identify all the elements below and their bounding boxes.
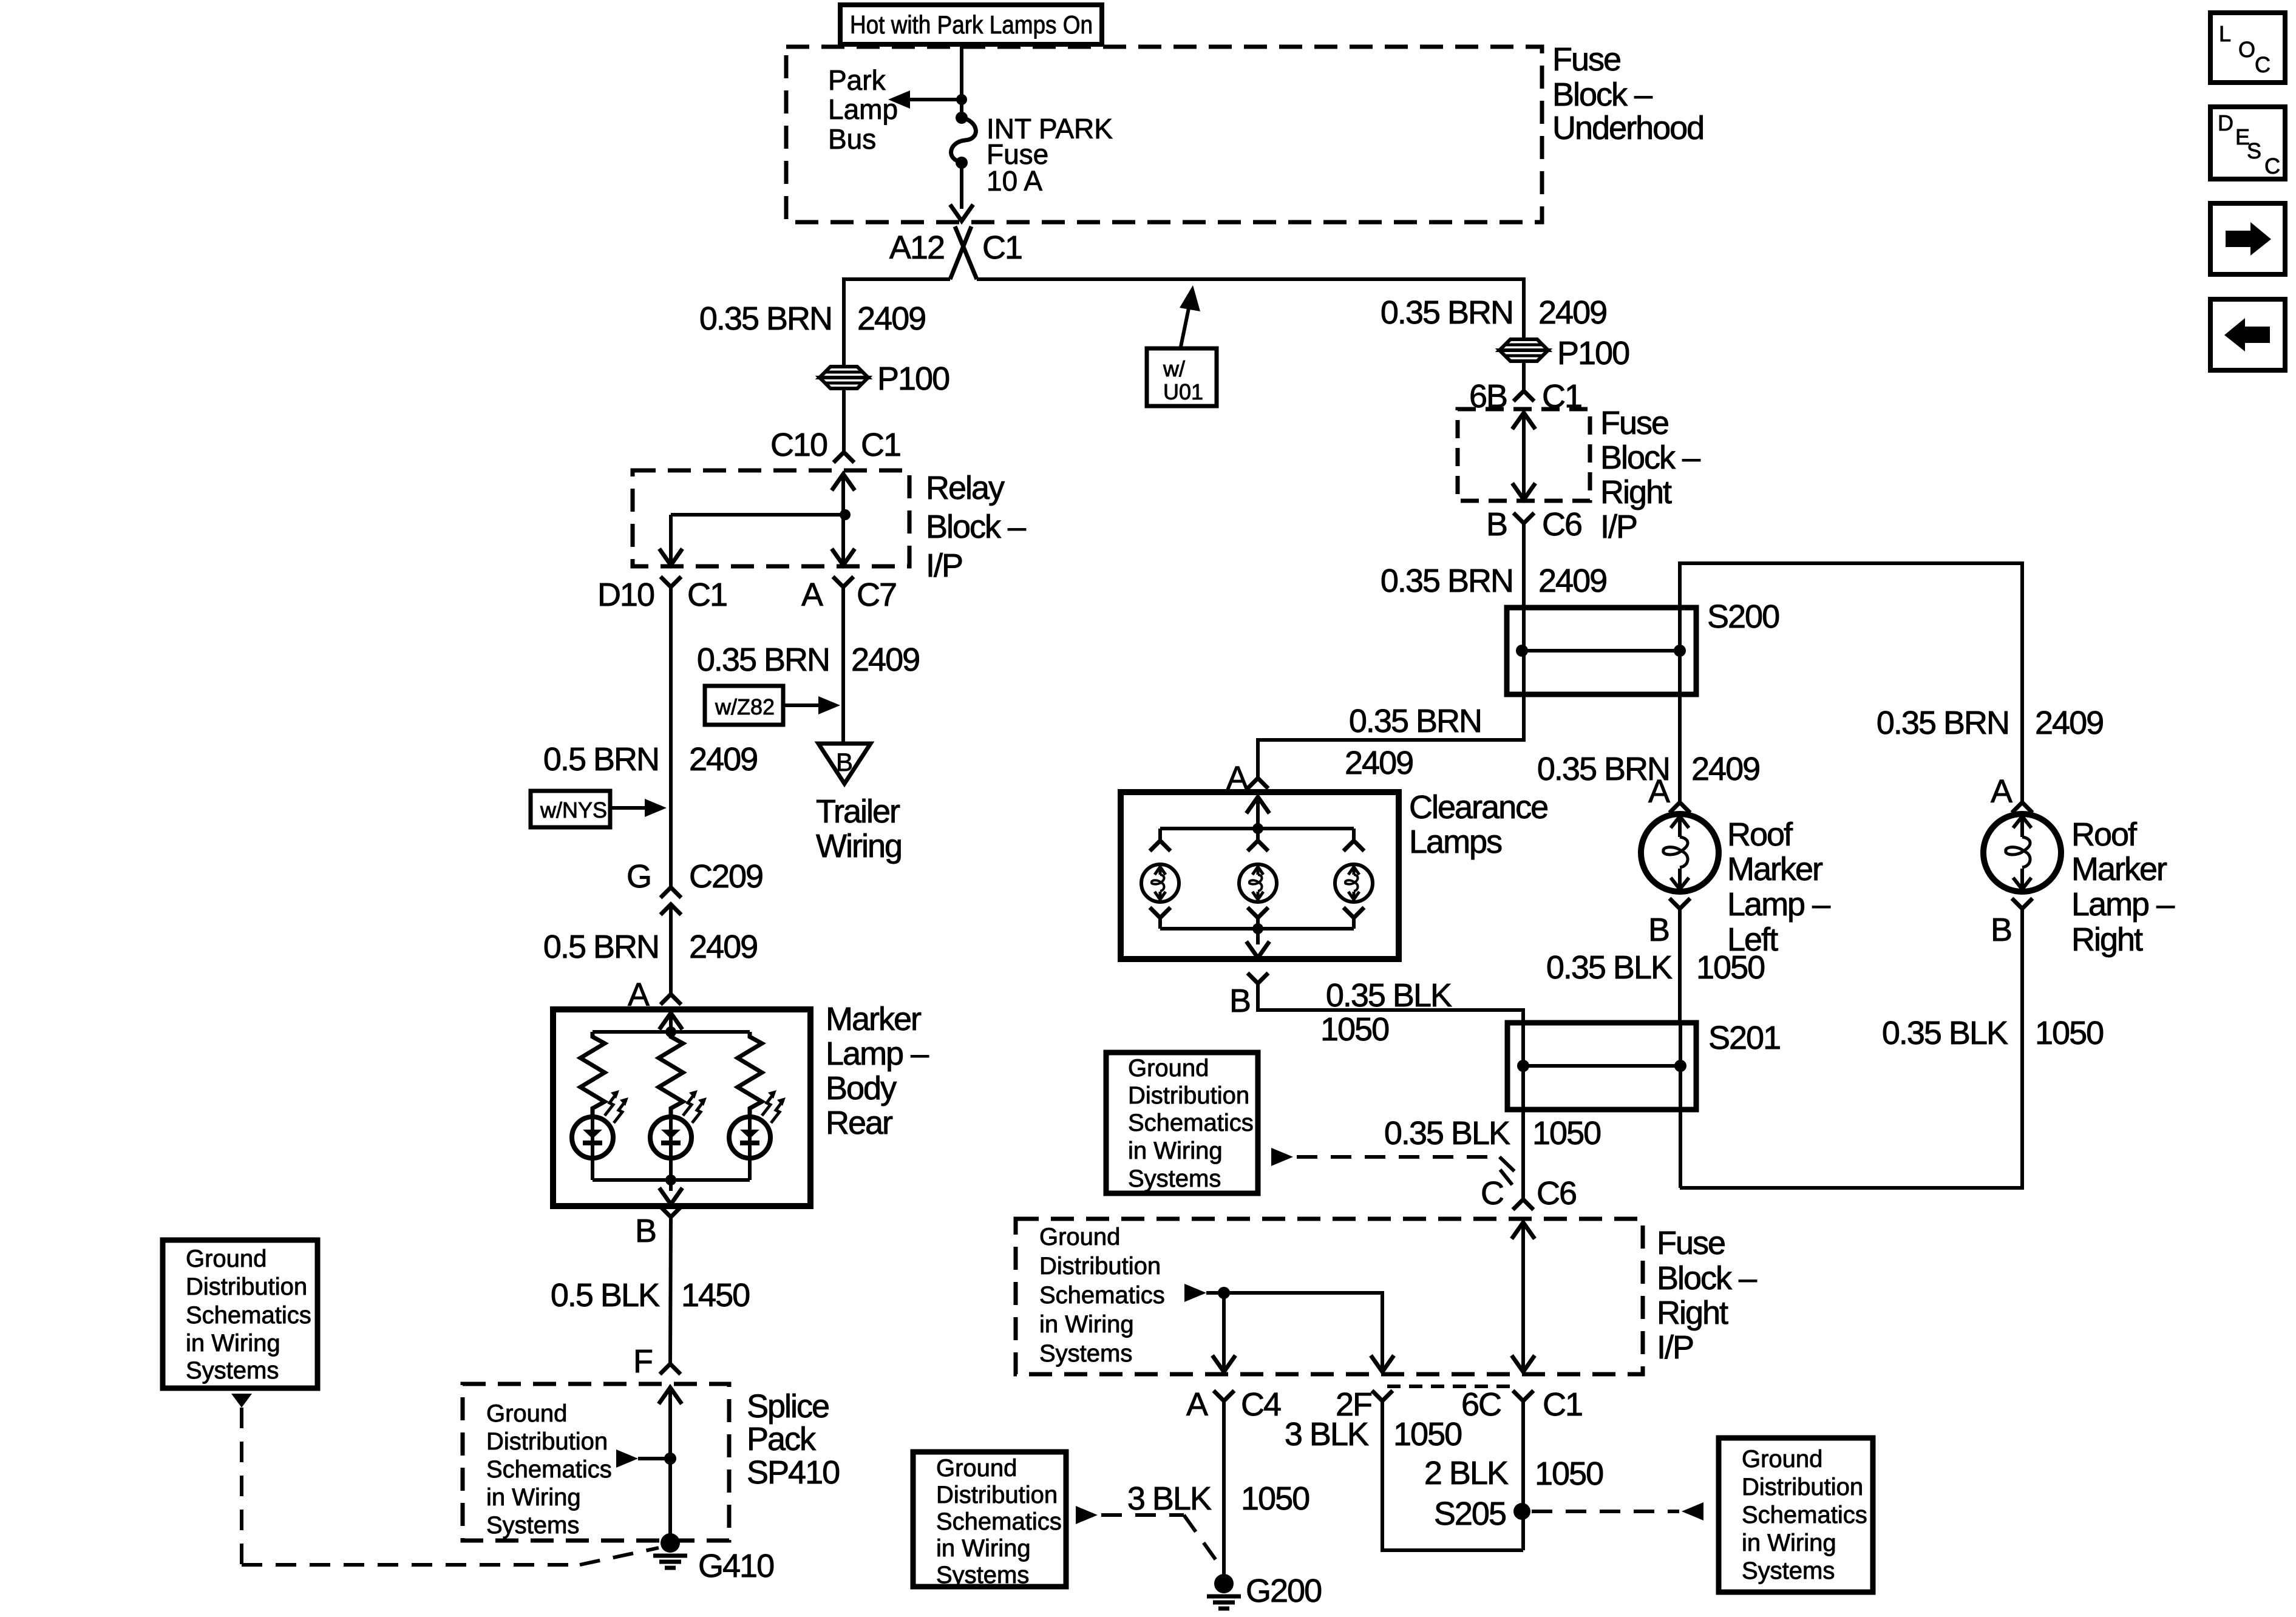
label Marker Lamp - Body Rear	[826, 1001, 929, 1141]
svg-text:Distribution: Distribution	[936, 1482, 1058, 1508]
splice pack entry arrow	[659, 1388, 682, 1404]
svg-text:1050: 1050	[1393, 1416, 1461, 1453]
icon box arrow left	[2210, 299, 2285, 370]
svg-text:2409: 2409	[689, 929, 757, 965]
svg-text:Ground: Ground	[1039, 1224, 1120, 1250]
ground G200	[1214, 1574, 1234, 1593]
marker exit arrow	[659, 1188, 682, 1204]
w/U01 arrow to wire	[1180, 285, 1200, 350]
label 3 BLK 1050 left	[1127, 1480, 1309, 1517]
svg-text:SP410: SP410	[747, 1454, 839, 1491]
svg-text:S200: S200	[1707, 598, 1779, 635]
dashed ref line from S205	[1532, 1510, 1679, 1513]
svg-text:Systems: Systems	[1128, 1165, 1221, 1192]
svg-text:0.35 BRN: 0.35 BRN	[1349, 703, 1481, 739]
GDS box arrow down	[231, 1394, 252, 1408]
wire split horizontal left	[844, 279, 950, 366]
svg-text:w/NYS: w/NYS	[540, 798, 607, 822]
connector A marker chevron	[661, 994, 681, 1005]
svg-text:Roof: Roof	[1727, 816, 1793, 853]
svg-text:2409: 2409	[1538, 294, 1606, 331]
svg-text:1050: 1050	[2035, 1015, 2103, 1051]
w/U01 reference box	[1147, 348, 1217, 406]
clearance entry arrow	[1246, 797, 1269, 813]
svg-text:C1: C1	[687, 577, 727, 613]
svg-text:0.35 BRN: 0.35 BRN	[699, 300, 832, 337]
wire P100 to fuse block right	[1522, 361, 1526, 391]
svg-text:1050: 1050	[1241, 1480, 1309, 1517]
label Fuse Block - Right I/P upper	[1600, 405, 1700, 545]
ground G410	[661, 1533, 680, 1553]
svg-text:Roof: Roof	[2071, 816, 2138, 853]
wire through fuse block right	[1522, 413, 1526, 501]
clearance exit arrow	[1246, 941, 1269, 958]
fuse block exit arrow 2F	[1371, 1355, 1394, 1372]
svg-text:P100: P100	[1557, 335, 1629, 371]
connector F chevron	[660, 1364, 681, 1374]
icon box DESC	[2210, 107, 2285, 179]
connector C10/C1 chevron	[834, 452, 854, 463]
lamp marker branch x1235	[729, 1090, 786, 1158]
svg-text:B: B	[1991, 912, 2011, 948]
svg-text:in Wiring: in Wiring	[486, 1484, 581, 1511]
connector B clearance chevron	[1248, 973, 1268, 983]
ground distribution schematics box middle	[1106, 1053, 1258, 1193]
svg-text:B: B	[1648, 912, 1669, 948]
svg-text:2409: 2409	[1538, 563, 1606, 599]
fuse block 6C exit arrow	[1512, 1355, 1535, 1372]
svg-text:3 BLK: 3 BLK	[1127, 1480, 1212, 1517]
splice S201 box	[1507, 1023, 1696, 1110]
label 0.5 BRN 2409 lower	[543, 929, 757, 965]
svg-text:S201: S201	[1708, 1020, 1780, 1056]
label Roof Marker Lamp - Right	[2071, 816, 2175, 958]
grommet P100 right	[1500, 339, 1548, 350]
connector A roof left chevron	[1669, 802, 1690, 813]
wire S200 to roof marker left	[1678, 651, 1682, 802]
svg-text:B: B	[836, 748, 853, 776]
svg-text:C10: C10	[770, 427, 827, 463]
roof marker lamp right bulb	[1983, 814, 2061, 892]
wire C209 to marker lamp	[669, 904, 673, 994]
svg-text:Right: Right	[1657, 1295, 1728, 1331]
svg-text:Marker: Marker	[1727, 851, 1823, 887]
icon box LOC	[2210, 13, 2285, 83]
wire 6C internal	[1521, 1222, 1525, 1373]
node marker bottom junction	[665, 1175, 676, 1185]
svg-text:Schematics: Schematics	[1128, 1110, 1254, 1136]
S205 ref arrow	[1682, 1502, 1703, 1520]
sub dashed line between 2F and 6C	[1387, 1385, 1518, 1388]
svg-text:Right: Right	[1600, 474, 1672, 510]
svg-text:I/P: I/P	[926, 547, 962, 584]
svg-text:C7: C7	[857, 577, 896, 613]
svg-text:Block –: Block –	[1657, 1260, 1757, 1297]
svg-text:U01: U01	[1163, 379, 1203, 404]
relay exit arrow left	[659, 549, 682, 565]
svg-text:A: A	[1186, 1386, 1208, 1423]
node marker top junction	[665, 1026, 676, 1037]
svg-text:S: S	[2247, 138, 2261, 163]
ground distribution schematics box left of G200	[913, 1452, 1066, 1588]
fuse block ref arrow	[1184, 1284, 1206, 1302]
node park lamp bus tap	[956, 94, 967, 105]
mid GDS arrow	[1271, 1148, 1293, 1166]
wire fuse to connector A12	[960, 163, 963, 209]
svg-text:1450: 1450	[681, 1277, 749, 1314]
svg-text:Body: Body	[826, 1070, 897, 1107]
svg-text:0.35 BLK: 0.35 BLK	[1326, 977, 1452, 1014]
connector 6B/C1 chevron	[1513, 391, 1534, 401]
svg-text:in Wiring: in Wiring	[936, 1535, 1031, 1562]
ground distribution schematics box top-left	[163, 1240, 318, 1388]
park lamp bus arrow	[888, 90, 962, 109]
fuse block right exit arrow	[1512, 483, 1535, 500]
connector B marker chevron	[661, 1207, 681, 1217]
splice pack SP410 dashed box	[463, 1384, 729, 1541]
wire split horizontal right	[977, 279, 1524, 339]
GDS reference text in splice pack	[486, 1400, 612, 1539]
connector A clearance chevron	[1248, 778, 1268, 788]
svg-text:B: B	[635, 1213, 656, 1249]
wire marker to splice pack	[670, 1217, 671, 1364]
label 0.35 BRN 2409 right branch	[1381, 294, 1606, 331]
w/Z82 reference box	[705, 686, 783, 725]
dashed ref route to G200	[1101, 1515, 1220, 1566]
svg-text:C1: C1	[1543, 1386, 1582, 1423]
wire A/C7 to trailer triangle	[841, 587, 845, 744]
svg-text:Fuse: Fuse	[1552, 41, 1620, 78]
svg-text:A: A	[801, 577, 823, 613]
svg-text:D: D	[2218, 110, 2233, 135]
wire header to park lamp bus tap	[960, 44, 963, 119]
dashed ref line to C6 wire	[1297, 1157, 1516, 1173]
fuse INT PARK 10A	[951, 112, 976, 169]
C diagonal tick	[1500, 1170, 1512, 1185]
lamp marker branch x1105	[650, 1090, 707, 1158]
left-mid GDS arrow	[1076, 1506, 1098, 1524]
w/NYS reference box	[531, 791, 610, 827]
wire marker bottom exit	[669, 1180, 673, 1191]
svg-text:0.35 BRN: 0.35 BRN	[1381, 563, 1513, 599]
label Fuse Block - Right I/P bottom	[1657, 1225, 1757, 1366]
svg-text:D10: D10	[597, 577, 654, 613]
svg-text:2409: 2409	[689, 741, 757, 778]
wire clearance feed internal	[1256, 798, 1260, 829]
w/NYS arrow	[610, 799, 667, 817]
wire marker bottom rail	[593, 1178, 750, 1182]
svg-text:Schematics: Schematics	[936, 1508, 1062, 1535]
connector 2F chevron	[1372, 1391, 1393, 1401]
svg-text:Relay: Relay	[926, 470, 1005, 506]
svg-text:in Wiring: in Wiring	[186, 1330, 280, 1357]
header box Hot with Park Lamps On	[840, 5, 1102, 44]
svg-text:Lamp –: Lamp –	[1727, 886, 1830, 923]
svg-text:2 BLK: 2 BLK	[1424, 1455, 1509, 1491]
svg-text:0.35 BRN: 0.35 BRN	[1381, 294, 1513, 331]
label 0.5 BRN 2409 upper	[543, 741, 757, 778]
svg-text:C6: C6	[1537, 1175, 1576, 1212]
svg-text:Bus: Bus	[828, 123, 876, 155]
label 0.35 BRN 2409 right lamp	[1877, 705, 2103, 741]
wire fuse block internal left drop	[1222, 1293, 1226, 1373]
svg-text:Splice: Splice	[747, 1388, 829, 1425]
svg-text:Ground: Ground	[186, 1246, 267, 1272]
fuse block right I/P bottom dashed box	[1016, 1219, 1643, 1374]
wire P100 to relay block	[842, 388, 846, 452]
svg-text:Ground: Ground	[1742, 1446, 1822, 1473]
node relay junction	[840, 509, 851, 520]
svg-text:Distribution: Distribution	[486, 1428, 608, 1455]
svg-text:C4: C4	[1241, 1386, 1281, 1423]
svg-text:6C: 6C	[1461, 1386, 1501, 1423]
fuse block right I/P upper dashed box	[1458, 409, 1590, 501]
w/Z82 arrow	[783, 696, 840, 714]
wire lamp to bottom rail x976	[591, 1158, 594, 1180]
dashed route to G410	[242, 1408, 659, 1565]
svg-text:0.35 BRN: 0.35 BRN	[1877, 705, 2009, 741]
svg-text:F: F	[633, 1343, 652, 1380]
svg-text:Marker: Marker	[826, 1001, 922, 1037]
wire D10 to C209	[669, 587, 673, 887]
marker lamp entry arrow	[659, 1013, 682, 1029]
wire S201 right to bottom rail	[1679, 1066, 1682, 1188]
label Splice Pack SP410	[747, 1388, 839, 1491]
wire S201 to fuse block C6	[1521, 1066, 1525, 1199]
wire roof left B to S201	[1678, 909, 1682, 1023]
clearance branch bottom pin x2072	[1248, 907, 1268, 929]
svg-text:Lamp –: Lamp –	[826, 1036, 929, 1072]
svg-text:Lamp –: Lamp –	[2071, 886, 2175, 923]
clearance bulb x1911	[1141, 864, 1179, 902]
label Roof Marker Lamp - Left	[1727, 816, 1830, 958]
svg-text:Rear: Rear	[826, 1105, 893, 1141]
trailer wiring triangle connector B	[818, 744, 871, 784]
label 0.35 BLK 1050 roof left	[1546, 949, 1764, 986]
node clearance bottom junction	[1252, 923, 1263, 934]
label 3 BLK 1050 2F	[1285, 1416, 1461, 1453]
splice pack ref arrow	[616, 1449, 670, 1468]
svg-text:B: B	[1486, 506, 1507, 543]
svg-text:10 A: 10 A	[987, 165, 1042, 197]
svg-text:Ground: Ground	[486, 1400, 567, 1427]
svg-text:P100: P100	[877, 361, 949, 397]
label Clearance Lamps	[1409, 789, 1547, 860]
svg-text:Distribution: Distribution	[186, 1273, 307, 1300]
wire B/C6 to S200	[1522, 523, 1526, 740]
svg-text:C1: C1	[861, 427, 900, 463]
svg-text:2409: 2409	[857, 300, 925, 337]
svg-text:in Wiring: in Wiring	[1128, 1137, 1223, 1164]
svg-text:Park: Park	[828, 64, 886, 96]
wire S200 to clearance lamps	[1258, 694, 1524, 778]
svg-text:C: C	[1481, 1175, 1503, 1212]
svg-text:A: A	[1991, 773, 2012, 810]
label 0.5 BLK 1450	[551, 1277, 749, 1314]
node S205	[1513, 1503, 1530, 1520]
svg-text:A12: A12	[889, 229, 944, 266]
wire marker top feed	[669, 1015, 673, 1032]
wire relay internal left drop	[669, 515, 673, 564]
connector B/C6 chevron	[1513, 513, 1534, 523]
svg-text:G200: G200	[1246, 1573, 1321, 1609]
svg-text:0.5 BRN: 0.5 BRN	[543, 929, 659, 965]
svg-text:in Wiring: in Wiring	[1742, 1530, 1836, 1556]
wire S201 right passthrough	[1679, 1023, 1682, 1066]
svg-text:L: L	[2219, 21, 2231, 46]
connector A12/C1 inline X symbol	[950, 226, 977, 279]
svg-text:Block –: Block –	[1552, 76, 1652, 113]
svg-text:Schematics: Schematics	[486, 1456, 612, 1483]
ground distribution schematics box right	[1719, 1438, 1873, 1592]
wire S201 left passthrough	[1521, 1023, 1525, 1066]
resistor marker branch x1235	[738, 1032, 762, 1117]
wire clearance top rail	[1160, 827, 1354, 830]
roof marker lamp left bulb	[1641, 814, 1719, 892]
svg-text:2409: 2409	[2035, 705, 2103, 741]
svg-text:3 BLK: 3 BLK	[1285, 1416, 1369, 1453]
svg-text:0.35 BLK: 0.35 BLK	[1546, 949, 1673, 986]
svg-text:Lamps: Lamps	[1409, 824, 1502, 860]
grommet P100 left	[820, 367, 868, 378]
svg-text:Fuse: Fuse	[1600, 405, 1668, 441]
node splice pack junction	[664, 1453, 676, 1465]
svg-text:Systems: Systems	[936, 1562, 1029, 1588]
svg-text:2409: 2409	[1691, 751, 1759, 787]
label 0.35 BLK 1050 to C6	[1384, 1115, 1600, 1151]
wire roof right B down	[1680, 909, 2022, 1188]
relay exit arrow right	[832, 549, 855, 565]
svg-text:G410: G410	[698, 1548, 773, 1584]
connector B roof left chevron	[1669, 898, 1690, 909]
svg-text:Ground: Ground	[1128, 1055, 1209, 1082]
label Relay Block - I/P	[926, 470, 1026, 584]
svg-text:0.35 BLK: 0.35 BLK	[1384, 1115, 1510, 1151]
fuse block exit arrow A	[1212, 1355, 1235, 1372]
clearance bulb x2072	[1239, 864, 1277, 902]
svg-text:0.5 BRN: 0.5 BRN	[543, 741, 659, 778]
svg-text:Lamp: Lamp	[828, 93, 898, 125]
svg-text:C1: C1	[982, 229, 1022, 266]
marker lamp body rear box	[553, 1009, 810, 1206]
svg-text:1050: 1050	[1320, 1011, 1388, 1048]
fuse block underhood dashed box	[786, 47, 1542, 222]
fuse block bottom entry arrow	[1512, 1222, 1535, 1239]
svg-text:B: B	[1229, 983, 1250, 1019]
svg-text:0.35 BRN: 0.35 BRN	[697, 642, 829, 678]
wire lamp to bottom rail x1235	[748, 1158, 752, 1180]
connector B roof right chevron	[2012, 898, 2033, 909]
arrow down at fuse block edge	[950, 205, 973, 221]
wire relay internal vertical	[841, 474, 845, 564]
svg-text:Clearance: Clearance	[1409, 789, 1547, 825]
connector D10/C1 chevron	[661, 577, 681, 587]
svg-text:w/: w/	[1163, 356, 1185, 381]
label INT PARK Fuse 10 A	[987, 113, 1113, 197]
wire 6C/C1 down through S205	[1521, 1401, 1525, 1550]
label Fuse Block - Underhood	[1552, 41, 1703, 146]
wire 2F down	[1382, 1401, 1523, 1550]
clearance branch bottom pin x1911	[1150, 907, 1170, 929]
label 2 BLK 1050	[1424, 1455, 1603, 1492]
svg-text:S205: S205	[1434, 1496, 1506, 1532]
svg-text:C: C	[2264, 154, 2280, 178]
clearance bulb x2230	[1335, 864, 1373, 902]
label 0.35 BRN 2409 left lamp	[1537, 751, 1759, 787]
svg-text:Trailer: Trailer	[816, 793, 900, 830]
wire clearance bottom rail	[1160, 927, 1354, 931]
svg-text:Block –: Block –	[1600, 439, 1700, 476]
svg-text:Distribution: Distribution	[1039, 1253, 1161, 1280]
svg-text:Systems: Systems	[1039, 1340, 1132, 1367]
splice S200 box	[1507, 608, 1696, 694]
svg-text:1050: 1050	[1535, 1456, 1603, 1492]
svg-text:2409: 2409	[851, 642, 919, 678]
svg-text:Block –: Block –	[926, 509, 1026, 545]
relay block entry arrow	[832, 474, 855, 490]
svg-text:Distribution: Distribution	[1742, 1474, 1863, 1500]
GDS reference text in fuse block	[1039, 1224, 1165, 1367]
svg-text:Schematics: Schematics	[1742, 1502, 1867, 1528]
wire clearance B to S201	[1258, 983, 1523, 1023]
connector A/C4 chevron	[1214, 1391, 1234, 1401]
fuse block right entry arrow	[1512, 413, 1535, 429]
svg-text:O: O	[2238, 37, 2255, 62]
label 0.35 BLK 1050 roof right	[1882, 1015, 2103, 1051]
wire fuse block internal	[1206, 1293, 1382, 1373]
svg-text:G: G	[627, 858, 651, 895]
clearance branch top pin x2230	[1343, 829, 1364, 851]
svg-text:C: C	[2255, 52, 2271, 77]
label 0.35 BRN 2409 to S200	[1381, 563, 1606, 599]
clearance branch bottom pin x2230	[1343, 907, 1364, 929]
wire clearance bottom exit	[1256, 929, 1260, 944]
clearance branch top pin x2072	[1248, 829, 1268, 851]
connector C/C6 chevron	[1513, 1199, 1533, 1210]
svg-text:0.35 BLK: 0.35 BLK	[1882, 1015, 2008, 1051]
svg-text:Fuse: Fuse	[1657, 1225, 1725, 1261]
S201 internal bus	[1517, 1060, 1686, 1072]
label 0.35 BRN 2409 left branch	[699, 300, 925, 337]
svg-text:Distribution: Distribution	[1128, 1082, 1249, 1109]
wire A/C4 to G200	[1222, 1401, 1226, 1575]
svg-text:Right: Right	[2071, 921, 2143, 958]
connector A/C7 chevron	[833, 577, 854, 587]
label Trailer Wiring	[816, 793, 902, 864]
node clearance top junction	[1252, 823, 1263, 834]
wire S200 right riser and top run to right lamp	[1680, 563, 2022, 802]
svg-text:Systems: Systems	[486, 1512, 579, 1539]
svg-text:Systems: Systems	[1742, 1558, 1835, 1584]
svg-text:Pack: Pack	[747, 1421, 817, 1457]
svg-text:Underhood: Underhood	[1552, 110, 1703, 146]
svg-text:I/P: I/P	[1600, 509, 1637, 545]
label Park Lamp Bus	[828, 64, 898, 155]
svg-text:Schematics: Schematics	[186, 1302, 311, 1329]
connector 6C/C1 chevron	[1513, 1391, 1533, 1401]
svg-text:1050: 1050	[1532, 1115, 1600, 1151]
svg-text:1050: 1050	[1696, 949, 1764, 986]
relay block I/P dashed box	[633, 470, 909, 566]
lamp marker branch x976	[572, 1090, 628, 1158]
connector G/C209 double chevron	[661, 887, 681, 915]
wire splice pack vertical	[668, 1388, 672, 1543]
wire lamp to bottom rail x1105	[669, 1158, 673, 1180]
svg-text:in Wiring: in Wiring	[1039, 1311, 1134, 1338]
clearance branch top pin x1911	[1150, 829, 1170, 851]
resistor marker branch x976	[580, 1032, 605, 1117]
svg-text:Marker: Marker	[2071, 851, 2167, 887]
